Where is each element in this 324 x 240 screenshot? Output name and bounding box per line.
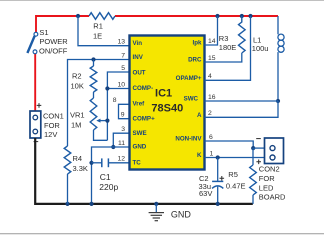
node: output node junction xyxy=(251,146,255,150)
svg-text:GND: GND xyxy=(171,209,192,219)
svg-text:FOR: FOR xyxy=(259,174,275,183)
wire: OUT / COMP- bus xyxy=(107,72,129,140)
svg-text:TC: TC xyxy=(133,159,142,166)
svg-text:SWC: SWC xyxy=(184,96,199,103)
svg-text:CON2: CON2 xyxy=(259,165,280,174)
node: COMP- on bus xyxy=(105,86,109,90)
svg-text:13: 13 xyxy=(117,39,125,46)
svg-text:3.3K: 3.3K xyxy=(73,164,88,173)
wire: red from switch S1 to CON1 xyxy=(34,53,36,111)
svg-text:K: K xyxy=(197,152,202,159)
svg-text:5: 5 xyxy=(121,65,125,72)
potentiometer VR1 xyxy=(90,98,97,130)
frame top edge xyxy=(0,0,324,2)
node: OPAMP+ tap on rail xyxy=(248,14,252,18)
node: C1 left junction xyxy=(89,161,93,165)
resistor R4 xyxy=(64,146,71,174)
wire: Vin tap to pin 13 xyxy=(78,16,130,46)
wire: SWE to GND line xyxy=(113,133,129,147)
wire: SWC pin line xyxy=(205,100,279,102)
svg-text:0.47E: 0.47E xyxy=(226,181,246,190)
wire: K pin to CON2 plus xyxy=(205,157,265,159)
svg-text:S1: S1 xyxy=(39,28,48,37)
node: wiper on bus xyxy=(105,119,109,123)
wire: COMP- pin line xyxy=(107,88,129,90)
wire: R4 bottom lead xyxy=(67,174,69,204)
svg-text:8: 8 xyxy=(113,97,117,104)
svg-text:1E: 1E xyxy=(93,31,102,40)
svg-text:100u: 100u xyxy=(252,44,269,53)
wire: red positive rail right segment xyxy=(115,15,278,17)
svg-text:Vref: Vref xyxy=(133,101,146,108)
wire: C1 right lead to pin 12 TC xyxy=(108,162,129,164)
resistor R2 xyxy=(90,66,97,92)
CON1 plus mark xyxy=(37,103,42,108)
node: C2 tap on K line xyxy=(216,155,220,159)
svg-text:2: 2 xyxy=(208,110,212,117)
CON2 plus mark xyxy=(256,160,261,165)
svg-text:R1: R1 xyxy=(93,22,103,31)
svg-text:OUT: OUT xyxy=(133,69,146,76)
svg-text:OPAMP+: OPAMP+ xyxy=(176,75,202,82)
svg-text:7: 7 xyxy=(121,52,125,59)
svg-text:4: 4 xyxy=(208,73,212,80)
svg-text:SWE: SWE xyxy=(133,130,147,137)
wire: R2 top lead xyxy=(93,60,95,67)
wire: GND pin line xyxy=(92,147,130,204)
svg-text:78S40: 78S40 xyxy=(151,103,183,115)
wire: L1 bottom to pin 2 A xyxy=(205,101,279,117)
wire: NON-INV pin to output node xyxy=(205,141,254,148)
svg-text:INV: INV xyxy=(133,54,144,61)
svg-text:FOR: FOR xyxy=(44,121,60,130)
svg-text:1: 1 xyxy=(210,150,214,157)
node: R4 bottom on rail xyxy=(65,202,69,206)
wire: output node to CON2 minus xyxy=(253,147,264,149)
svg-text:Ipk: Ipk xyxy=(193,40,202,47)
capacitor C1 xyxy=(102,158,109,167)
svg-text:10: 10 xyxy=(117,81,125,88)
node: C1/VR1 branch on rail xyxy=(89,202,93,206)
node: Vin tap on rail xyxy=(76,14,80,18)
switch S1 xyxy=(27,32,37,53)
wire: R2 to VR1 xyxy=(93,92,95,98)
resistor R1 xyxy=(89,13,115,20)
svg-text:11: 11 xyxy=(118,140,125,147)
svg-text:220p: 220p xyxy=(99,182,118,192)
svg-text:R3: R3 xyxy=(219,34,229,43)
inductor L1 xyxy=(278,16,284,101)
svg-text:A: A xyxy=(197,112,202,119)
svg-text:R4: R4 xyxy=(73,154,83,163)
svg-text:GND: GND xyxy=(133,144,147,151)
VR1 wiper arrow xyxy=(96,119,107,123)
svg-text:LED: LED xyxy=(259,183,274,192)
svg-text:C1: C1 xyxy=(100,172,111,182)
connector CON1 xyxy=(30,111,41,138)
CON2 minus mark xyxy=(256,138,261,140)
node: SWE joins GND line xyxy=(111,145,115,149)
svg-text:CON1: CON1 xyxy=(43,112,64,121)
svg-text:Vin: Vin xyxy=(133,40,143,47)
wire: OPAMP+ tap to pin 4 xyxy=(205,16,251,80)
svg-text:POWER: POWER xyxy=(39,37,68,46)
svg-text:L1: L1 xyxy=(253,35,261,44)
svg-text:1M: 1M xyxy=(71,120,81,129)
svg-text:IC1: IC1 xyxy=(155,88,172,100)
svg-text:14: 14 xyxy=(208,38,216,45)
capacitor C2 xyxy=(212,158,223,204)
svg-text:6: 6 xyxy=(209,134,213,141)
svg-text:ON/OFF: ON/OFF xyxy=(39,46,68,55)
svg-text:16: 16 xyxy=(208,94,216,101)
resistor R3 xyxy=(239,16,246,53)
node: R3 top on rail xyxy=(240,14,244,18)
svg-text:15: 15 xyxy=(208,55,216,62)
node: C2 bottom on rail xyxy=(216,202,220,206)
CON1 minus mark xyxy=(34,141,39,143)
svg-text:9: 9 xyxy=(121,112,125,119)
svg-text:12: 12 xyxy=(117,156,125,163)
svg-text:63V: 63V xyxy=(199,189,212,198)
resistor R5 xyxy=(250,165,257,195)
svg-text:10K: 10K xyxy=(71,82,84,91)
wire: red positive rail left segment xyxy=(36,16,89,34)
wire: Vref to COMP+ strap xyxy=(119,104,130,118)
svg-text:COMP+: COMP+ xyxy=(133,116,156,123)
IC U1 78S40 body xyxy=(130,36,205,170)
frame bottom edge xyxy=(0,233,324,235)
node: Ipk tap on rail xyxy=(215,14,219,18)
svg-text:COMP-: COMP- xyxy=(133,85,154,92)
svg-text:12V: 12V xyxy=(44,130,57,139)
wire: Ipk tap to pin 14 xyxy=(205,16,218,45)
wire: VR1 bottom to OUT bus xyxy=(94,130,108,140)
node: R2 top on INV line xyxy=(91,57,95,61)
svg-text:BOARD: BOARD xyxy=(259,193,286,202)
wire: R5 top lead xyxy=(252,148,254,165)
svg-text:3: 3 xyxy=(121,126,125,133)
connector CON2 xyxy=(265,138,284,164)
wire: C1 left lead xyxy=(92,162,102,164)
svg-text:R5: R5 xyxy=(228,170,238,179)
node: SWC junction under L1 xyxy=(276,99,280,103)
svg-text:DRC: DRC xyxy=(188,57,202,64)
wire: R5 bottom lead xyxy=(252,195,254,204)
svg-text:VR1: VR1 xyxy=(70,111,85,120)
wire: INV node horizontal xyxy=(68,60,130,147)
svg-text:R2: R2 xyxy=(72,72,82,81)
wire: R3 bottom to pin 15 DRC xyxy=(205,53,242,62)
wire: black from CON1 to ground rail xyxy=(35,138,253,204)
svg-text:NON-INV: NON-INV xyxy=(175,136,202,143)
svg-text:180E: 180E xyxy=(219,43,237,52)
C2 plus mark xyxy=(220,176,225,181)
ground xyxy=(149,202,164,221)
